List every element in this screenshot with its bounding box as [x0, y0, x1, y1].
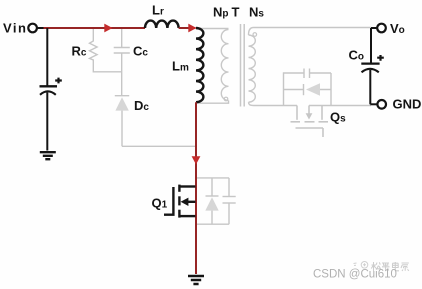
transformer core T — [241, 24, 245, 107]
terminal Vin — [28, 24, 43, 33]
arrow Q1 body — [181, 198, 189, 206]
resistor Rc — [90, 29, 122, 72]
inductor Lm — [196, 28, 203, 102]
wire Np bottom to drain node — [196, 101, 229, 104]
wire output top black — [371, 27, 377, 29]
ground Q1 source — [188, 276, 204, 284]
winding Np — [221, 30, 228, 101]
diode Dc — [115, 96, 129, 147]
capacitor Cin — [40, 78, 62, 151]
wire clamp to drain node — [122, 145, 195, 147]
svg-text:GND: GND — [393, 97, 422, 112]
winding Ns — [249, 28, 256, 106]
diode Q1 body — [205, 178, 218, 224]
transistor Q1 — [164, 185, 196, 218]
inductor Lr — [145, 21, 179, 28]
terminal Vo — [377, 24, 386, 33]
capacitor Q1 parasitic — [197, 178, 236, 224]
capacitor Co — [361, 28, 384, 104]
wire node to Np top — [196, 28, 229, 30]
wire Ns bottom to Qs — [254, 105, 298, 107]
capacitor Cc — [114, 29, 130, 96]
ground input — [40, 152, 56, 159]
svg-text:CSDN @Cui610: CSDN @Cui610 — [313, 269, 397, 281]
arrow current 2 — [188, 24, 196, 33]
wire Vin node down — [46, 28, 48, 86]
arrow current 3 — [192, 156, 201, 164]
arrow current 1 — [104, 24, 112, 33]
wire Qs source to GND node — [309, 105, 371, 107]
dot Ns — [253, 33, 257, 37]
watermark logo — [354, 262, 368, 269]
arrow Qs body — [306, 113, 313, 119]
svg-text:T: T — [232, 5, 240, 20]
terminal GND — [377, 100, 386, 109]
svg-text:Vin: Vin — [3, 21, 28, 36]
wire Lr to node red — [179, 27, 196, 29]
wire drain vertical red — [195, 102, 197, 274]
wire input top rail red — [43, 27, 146, 29]
capacitor Qs parasitic — [284, 69, 332, 106]
diode Qs body — [284, 73, 332, 106]
wire to GND terminal — [370, 103, 377, 105]
wire Ns top to output — [254, 27, 372, 29]
transistor Qs — [291, 106, 329, 138]
dot Np — [224, 97, 228, 101]
watermark brand glyphs — [371, 262, 409, 271]
